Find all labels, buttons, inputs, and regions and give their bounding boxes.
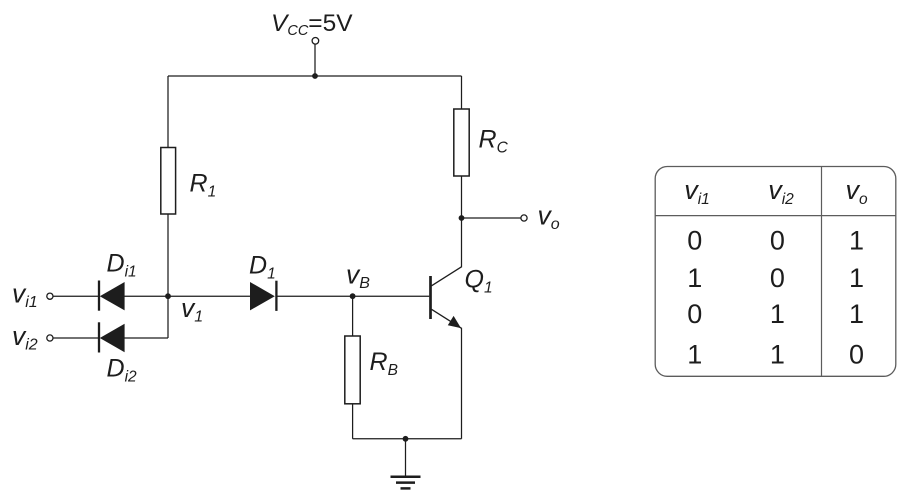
svg-text:1: 1 xyxy=(687,263,702,293)
table row 1 xyxy=(687,226,864,256)
input terminal vi2 xyxy=(47,335,53,341)
svg-text:Di2: Di2 xyxy=(107,355,138,386)
Vcc terminal xyxy=(312,38,319,45)
table row 3 xyxy=(687,299,864,329)
truth table header separator xyxy=(655,215,896,217)
svg-text:1: 1 xyxy=(687,339,702,369)
svg-text:RC: RC xyxy=(479,126,509,157)
svg-text:vo: vo xyxy=(538,201,560,234)
svg-text:1: 1 xyxy=(849,226,864,256)
wire: output node to vo terminal xyxy=(462,217,521,219)
svg-text:0: 0 xyxy=(770,226,785,256)
svg-text:0: 0 xyxy=(849,339,864,369)
node v1 junction xyxy=(165,293,171,299)
diode Di1 xyxy=(99,281,125,311)
wire: left branch lower (R1 to node v1 and down to Di2 branch) xyxy=(167,214,169,338)
svg-text:VCC=5V: VCC=5V xyxy=(271,10,353,39)
table row 4 xyxy=(687,339,864,369)
wire: RC bottom lead to output node xyxy=(461,176,463,218)
svg-text:Di1: Di1 xyxy=(107,250,137,281)
wire: top rail from R1 to RC xyxy=(168,75,462,77)
input terminal vi1 xyxy=(47,293,53,299)
resistor RC xyxy=(454,109,469,176)
truth table frame xyxy=(655,167,896,377)
svg-text:v1: v1 xyxy=(181,293,203,326)
wire: vi1 input lead xyxy=(53,295,98,297)
wire: D1 to node vB and on to Q1 base xyxy=(276,295,429,297)
diode D1 xyxy=(250,281,276,311)
node: Vcc junction on top rail xyxy=(312,73,318,79)
svg-text:Q1: Q1 xyxy=(465,266,493,297)
wire: vi2 input lead xyxy=(53,337,98,339)
wire: Di1 to node v1 xyxy=(124,295,168,297)
wire: emitter vertical down to bottom rail xyxy=(461,329,463,439)
truth table column separator xyxy=(821,167,823,377)
svg-text:0: 0 xyxy=(770,263,785,293)
svg-text:0: 0 xyxy=(687,299,702,329)
node vB junction xyxy=(350,293,356,299)
resistor R1 xyxy=(161,148,176,215)
wire: left branch upper (top rail to R1) xyxy=(167,76,169,148)
wire: RB to bottom rail xyxy=(352,404,354,439)
wire: RC top lead from rail xyxy=(461,76,463,109)
svg-text:1: 1 xyxy=(849,299,864,329)
svg-text:0: 0 xyxy=(687,226,702,256)
svg-text:vB: vB xyxy=(346,260,370,293)
svg-text:R1: R1 xyxy=(190,170,217,201)
transistor Q1 xyxy=(431,267,462,329)
svg-text:1: 1 xyxy=(849,263,864,293)
wire: Vcc stub xyxy=(314,44,316,76)
svg-text:RB: RB xyxy=(370,348,398,379)
wire: ground stub xyxy=(405,439,407,476)
output terminal vo xyxy=(521,215,527,221)
svg-text:1: 1 xyxy=(770,339,785,369)
wire: Di2 to left branch xyxy=(124,337,168,339)
node: ground junction on bottom rail xyxy=(403,436,409,442)
wire: bottom rail from RB to emitter xyxy=(353,438,462,440)
svg-text:vi1: vi1 xyxy=(12,279,38,312)
ground xyxy=(391,477,421,489)
node vo junction xyxy=(459,215,465,221)
wire: collector vertical (output node down to Q1) xyxy=(461,218,463,267)
wire: node v1 to D1 xyxy=(168,295,250,297)
svg-text:D1: D1 xyxy=(249,252,276,283)
table row 2 xyxy=(687,263,864,293)
svg-text:1: 1 xyxy=(770,299,785,329)
resistor RB xyxy=(345,336,360,404)
svg-text:vi2: vi2 xyxy=(12,321,38,354)
diode Di2 xyxy=(99,322,125,352)
wire: node vB down to RB xyxy=(352,296,354,336)
